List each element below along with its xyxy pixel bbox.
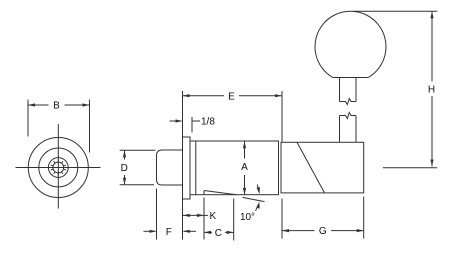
svg-text:B: B bbox=[53, 101, 60, 112]
svg-text:D: D bbox=[121, 163, 128, 174]
svg-text:C: C bbox=[215, 228, 222, 239]
svg-text:1/8: 1/8 bbox=[201, 117, 215, 128]
svg-text:H: H bbox=[428, 85, 435, 96]
svg-text:A: A bbox=[241, 162, 248, 173]
svg-text:F: F bbox=[166, 227, 172, 238]
svg-text:G: G bbox=[319, 226, 327, 237]
svg-text:K: K bbox=[209, 211, 216, 222]
svg-text:10°: 10° bbox=[240, 212, 255, 223]
svg-text:E: E bbox=[228, 91, 235, 102]
